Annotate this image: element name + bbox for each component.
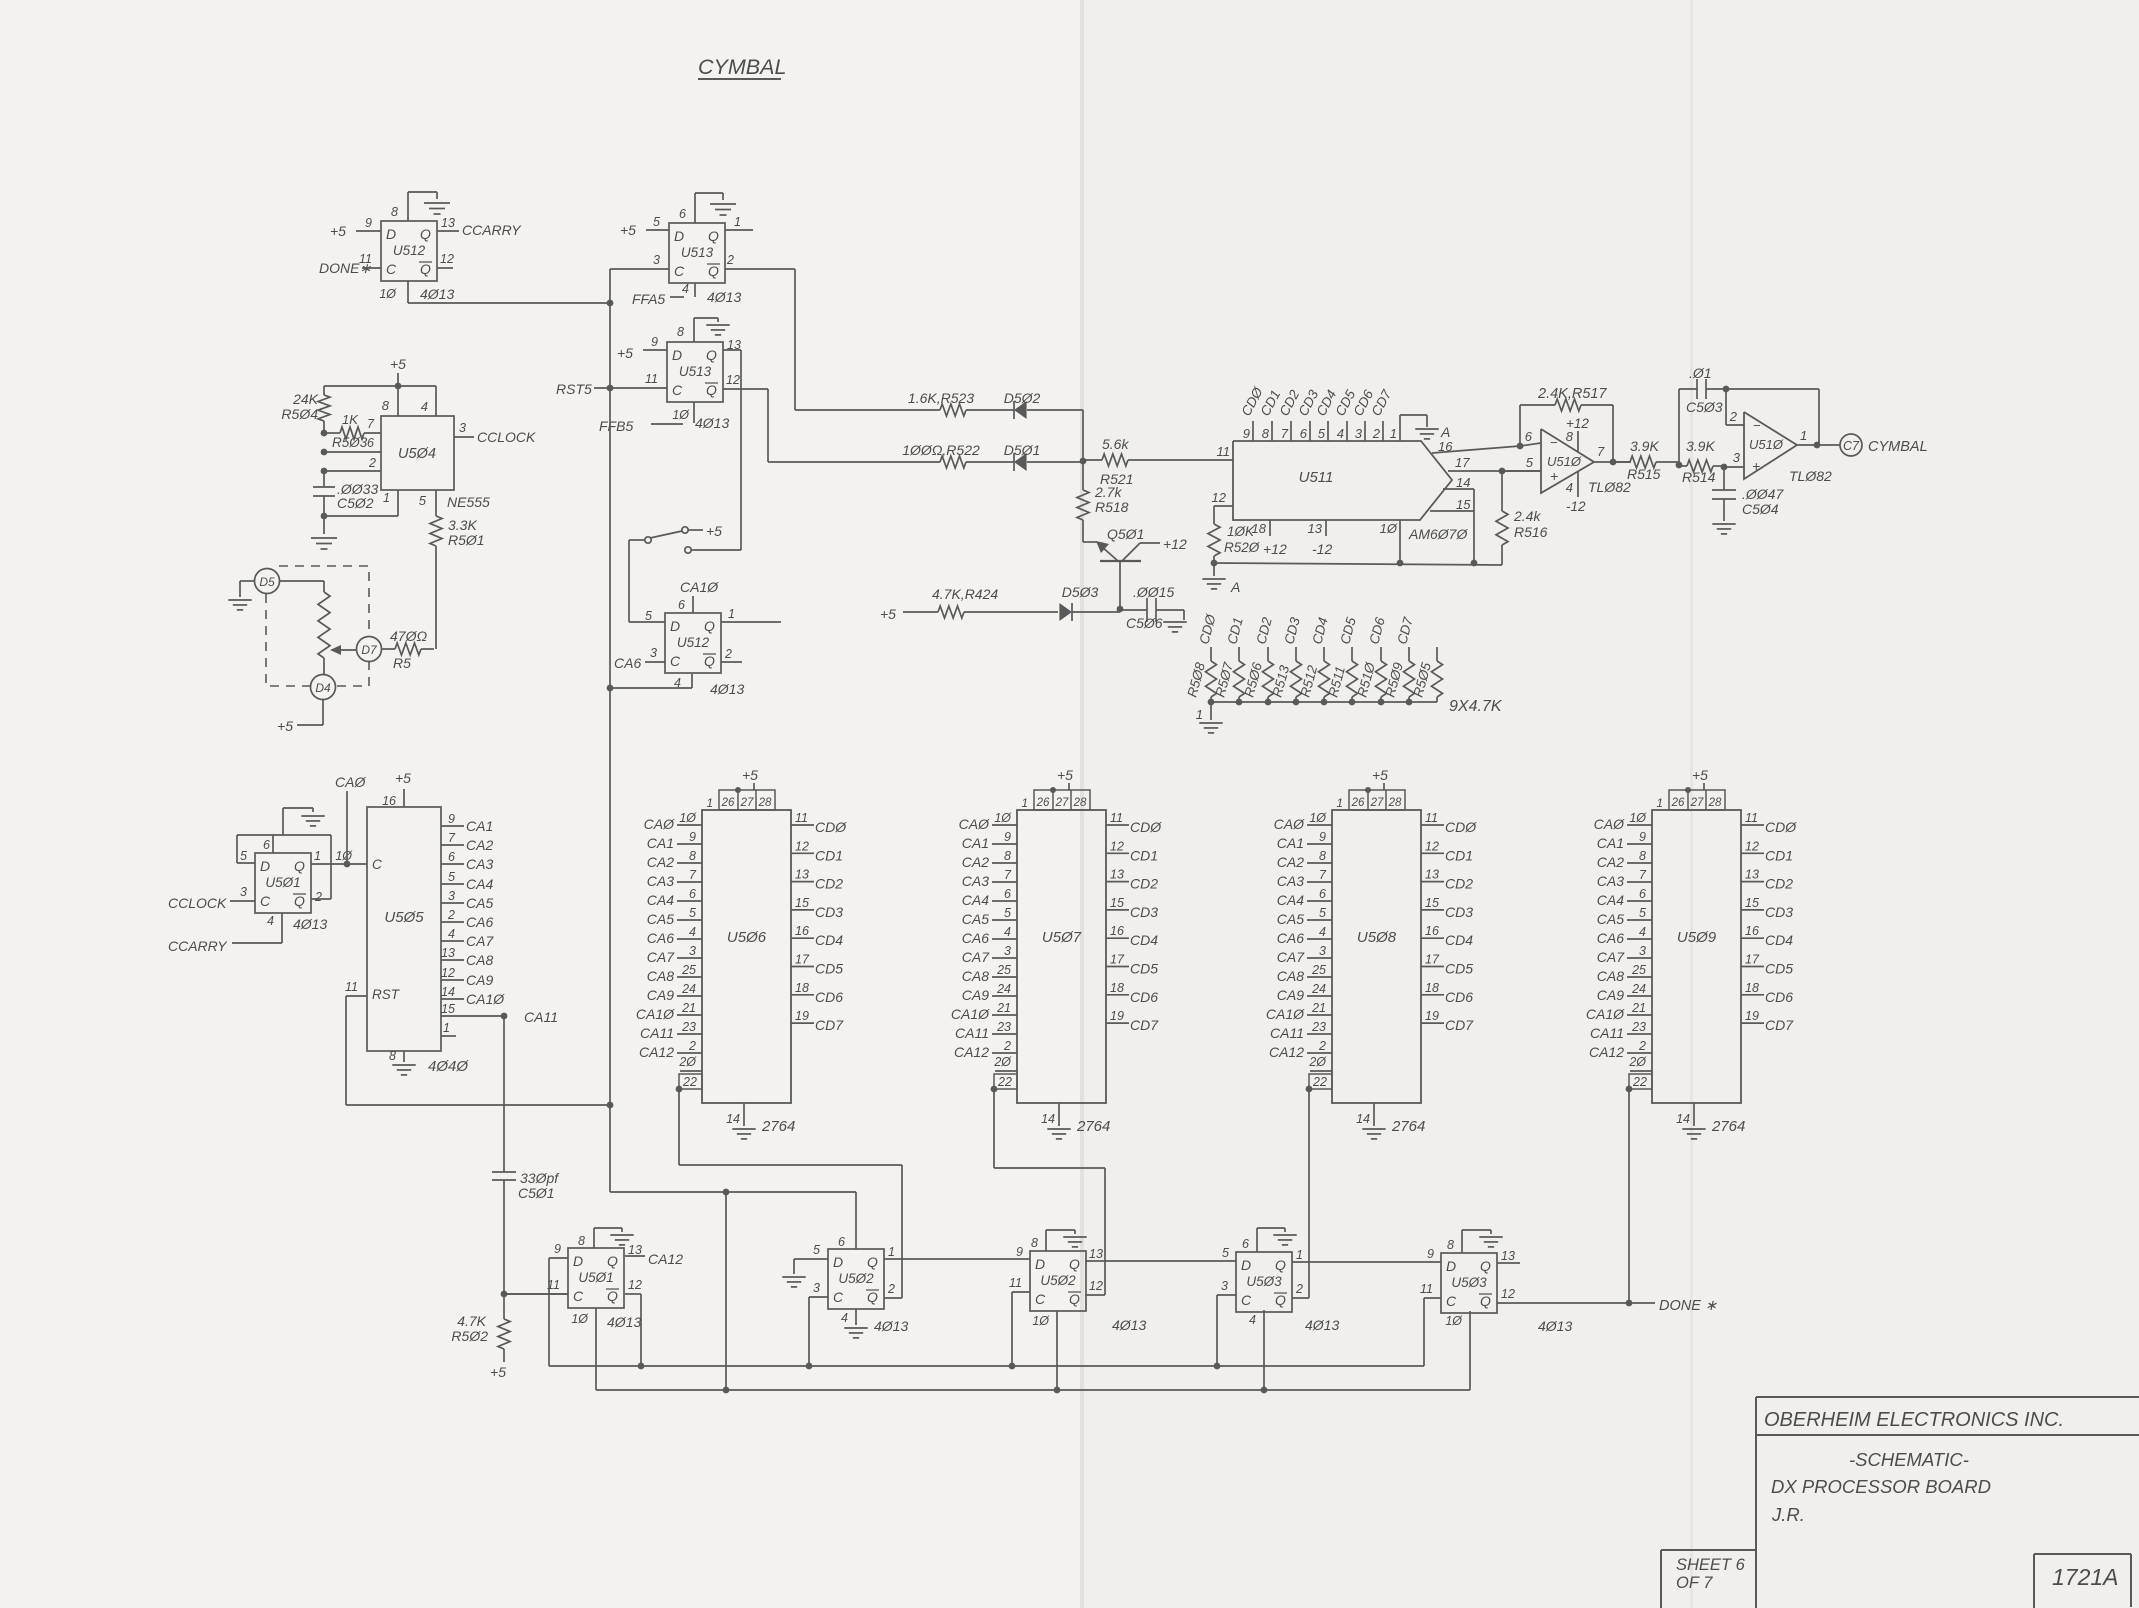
svg-text:5: 5: [240, 849, 247, 863]
wire U503 pin 13 stub: [1497, 1262, 1520, 1264]
svg-text:19: 19: [1425, 1009, 1439, 1023]
U509 pin 14 ground: [1693, 1103, 1695, 1126]
U506 pin 4 CA6: [677, 938, 702, 940]
wire U513 pin 10 FFB5: [693, 402, 695, 423]
U511 pin 13 to -12: [1325, 520, 1327, 536]
number box 1721A: [2034, 1553, 2131, 1555]
resistor R509: [1408, 647, 1410, 661]
svg-text:2: 2: [1318, 1039, 1326, 1053]
U509 pin 2 CA12: [1627, 1052, 1652, 1054]
svg-text:D4: D4: [315, 681, 331, 695]
wire U507 CS to U502 Qbar: [993, 1089, 995, 1168]
svg-text:D5Ø3: D5Ø3: [1062, 584, 1099, 600]
svg-text:CD1: CD1: [1765, 847, 1793, 863]
U507 pin 21 CA10: [992, 1014, 1017, 1016]
svg-text:CA2: CA2: [1277, 854, 1304, 870]
wire U503 pin 2 Qbar from U508: [1292, 1297, 1309, 1299]
svg-text:Q: Q: [420, 226, 431, 242]
wire main bus vertical: [609, 269, 611, 1192]
svg-text:13: 13: [727, 338, 741, 352]
svg-text:Q: Q: [1069, 1256, 1080, 1272]
U506 pin 13 CD2: [791, 881, 814, 883]
svg-text:11: 11: [1425, 811, 1438, 825]
svg-text:2764: 2764: [761, 1118, 795, 1135]
wire U501 pin 1 Q to U505 C: [311, 863, 367, 865]
svg-text:R514: R514: [1682, 469, 1716, 485]
svg-text:2: 2: [1003, 1039, 1011, 1053]
svg-text:13: 13: [441, 946, 455, 960]
svg-text:R52Ø: R52Ø: [1224, 540, 1261, 555]
svg-text:C5Ø4: C5Ø4: [1742, 501, 1779, 517]
svg-text:D: D: [260, 858, 270, 874]
svg-text:16: 16: [1438, 439, 1453, 454]
svg-text:9: 9: [1427, 1247, 1434, 1261]
svg-text:11: 11: [1009, 1276, 1022, 1290]
svg-text:CA8: CA8: [647, 968, 674, 984]
flip-flop U503 (first): [1236, 1252, 1292, 1312]
svg-text:11: 11: [1217, 444, 1231, 459]
svg-text:A: A: [1230, 579, 1240, 595]
U509 pin 12 CD1: [1741, 852, 1764, 854]
svg-text:CA1: CA1: [647, 835, 674, 851]
svg-text:27: 27: [1055, 797, 1069, 809]
svg-text:5: 5: [1526, 455, 1534, 470]
svg-text:12: 12: [441, 966, 455, 980]
feedback loop Qbar to D: [311, 898, 331, 900]
pin 6 CA3: [441, 863, 464, 865]
svg-text:8: 8: [1319, 849, 1326, 863]
svg-text:8: 8: [382, 398, 390, 413]
U506 pin 21 CA10: [677, 1014, 702, 1016]
pin 5 CA4: [441, 883, 464, 885]
svg-text:CA5: CA5: [466, 895, 493, 911]
pin 1 stub: [441, 1035, 456, 1037]
svg-text:12: 12: [628, 1278, 642, 1292]
U508 pin 4 CA6: [1307, 938, 1332, 940]
svg-text:6: 6: [838, 1235, 845, 1249]
wire U512 pin13 CCARRY: [437, 230, 459, 232]
ground above U501: [282, 808, 284, 835]
U508 pin 16 CD4: [1421, 937, 1444, 939]
svg-text:R5Ø2: R5Ø2: [451, 1328, 488, 1344]
U509 pin 5 CA5: [1627, 919, 1652, 921]
svg-text:4: 4: [682, 282, 689, 296]
svg-text:CA3: CA3: [1277, 873, 1304, 889]
svg-text:-SCHEMATIC-: -SCHEMATIC-: [1849, 1449, 1969, 1470]
network common bus: [1211, 701, 1437, 703]
U507 pin 16 CD4: [1106, 937, 1129, 939]
svg-text:+5: +5: [1372, 767, 1388, 783]
svg-text:R515: R515: [1627, 466, 1661, 482]
svg-text:13: 13: [1089, 1247, 1103, 1261]
svg-text:14: 14: [1676, 1112, 1690, 1126]
svg-text:7: 7: [1639, 868, 1647, 882]
svg-text:2: 2: [1295, 1282, 1303, 1296]
svg-text:CA6: CA6: [647, 930, 674, 946]
svg-text:CD1: CD1: [815, 847, 843, 863]
U507 pin 19 CD7: [1106, 1022, 1129, 1024]
svg-text:CD5: CD5: [815, 961, 843, 977]
svg-text:27: 27: [1370, 797, 1384, 809]
svg-text:Q: Q: [420, 261, 431, 277]
svg-text:16: 16: [1745, 924, 1759, 938]
svg-text:17: 17: [1455, 455, 1470, 470]
svg-text:27: 27: [740, 797, 754, 809]
svg-text:D5: D5: [259, 575, 275, 589]
svg-text:CA4: CA4: [1597, 892, 1624, 908]
capacitor C504 .0047: [1723, 467, 1725, 490]
svg-text:2: 2: [447, 908, 455, 922]
svg-text:CA1: CA1: [1277, 835, 1304, 851]
svg-text:CYMBAL: CYMBAL: [1868, 439, 1928, 455]
svg-text:22: 22: [682, 1075, 697, 1089]
svg-text:9: 9: [1004, 830, 1011, 844]
ground below C504: [1712, 523, 1735, 525]
svg-text:CA8: CA8: [1277, 968, 1304, 984]
U507 pin 13 CD2: [1106, 881, 1129, 883]
svg-text:C: C: [372, 857, 382, 872]
svg-text:12: 12: [726, 373, 740, 387]
wire U503 pin 1 Q to next D: [1292, 1261, 1441, 1263]
svg-text:+5: +5: [277, 718, 293, 734]
svg-text:1: 1: [443, 1021, 450, 1035]
svg-text:+: +: [1550, 468, 1558, 484]
svg-text:1: 1: [1656, 796, 1663, 810]
svg-text:J.R.: J.R.: [1771, 1504, 1805, 1525]
svg-text:Q: Q: [1480, 1293, 1491, 1309]
svg-text:25: 25: [1631, 963, 1646, 977]
wire U509 CS down: [1628, 1089, 1630, 1303]
U509 pin 20: [1630, 1070, 1652, 1072]
pin 12 CA9: [441, 979, 464, 981]
U511 pin 10 to analog ground bus: [1399, 520, 1401, 563]
svg-text:28: 28: [1708, 797, 1722, 809]
U508 pin 13 CD2: [1421, 881, 1444, 883]
flip-flop U513 (FFB5): [667, 342, 723, 402]
svg-text:CA5: CA5: [647, 911, 674, 927]
svg-text:4: 4: [267, 914, 274, 928]
svg-text:26: 26: [1671, 797, 1685, 809]
svg-text:RST: RST: [372, 987, 401, 1002]
svg-text:CD7: CD7: [815, 1017, 844, 1033]
pot wiper arrow from D7: [336, 649, 357, 651]
U511 pin 1 to analog ground A: [1399, 415, 1401, 441]
wire D4 to +5: [322, 699, 324, 725]
svg-text:1: 1: [1196, 707, 1203, 722]
U508 pin 7 CA3: [1307, 881, 1332, 883]
svg-text:CA3: CA3: [962, 873, 989, 889]
svg-text:13: 13: [628, 1243, 642, 1257]
svg-text:−: −: [1753, 418, 1761, 433]
svg-text:CDØ: CDØ: [1445, 819, 1477, 835]
svg-text:25: 25: [681, 963, 696, 977]
svg-text:CA1Ø: CA1Ø: [466, 991, 505, 1007]
pin 15 wire to CA11: [441, 1015, 504, 1017]
U508 pin 23 CA11: [1307, 1033, 1332, 1035]
svg-text:C5Ø3: C5Ø3: [1686, 399, 1723, 415]
svg-text:8: 8: [1004, 849, 1011, 863]
svg-text:CA5: CA5: [1277, 911, 1304, 927]
svg-text:+5: +5: [490, 1364, 506, 1380]
svg-text:1Ø: 1Ø: [672, 408, 690, 422]
svg-text:4.7K: 4.7K: [457, 1313, 486, 1329]
svg-text:3: 3: [448, 889, 455, 903]
svg-text:8: 8: [1031, 1236, 1038, 1250]
svg-text:Q: Q: [607, 1288, 618, 1304]
wire U513 pin 2 Qbar to R523: [725, 268, 795, 270]
op-amp pin 8 +12: [1577, 431, 1579, 452]
svg-text:3.9K: 3.9K: [1686, 438, 1715, 454]
wire U513 pin 12 Qbar to R522: [723, 388, 768, 390]
svg-text:4Ø4Ø: 4Ø4Ø: [428, 1058, 469, 1075]
svg-text:CA11: CA11: [955, 1025, 989, 1041]
svg-text:5: 5: [689, 906, 696, 920]
svg-text:U5Ø1: U5Ø1: [578, 1270, 613, 1285]
svg-text:+5: +5: [395, 770, 411, 786]
wire U501 pin 13 Q CA12: [625, 1255, 645, 1257]
wire U512 pin 2 stub: [721, 661, 742, 663]
ground at C506: [1183, 610, 1185, 620]
svg-text:4.7K,R424: 4.7K,R424: [932, 586, 998, 602]
svg-text:CD4: CD4: [815, 932, 843, 948]
wire U502 pin 1 Q to next D: [884, 1258, 1030, 1260]
resistor R505: [1436, 647, 1438, 661]
U507 pin 8 CA2: [992, 862, 1017, 864]
resistor R516 2.4k: [1496, 511, 1508, 545]
svg-text:11: 11: [1110, 811, 1123, 825]
wire bus bottom to U502 pin 6: [610, 1191, 856, 1193]
svg-text:Q: Q: [1275, 1292, 1286, 1308]
svg-text:R5: R5: [393, 655, 411, 671]
svg-text:D: D: [386, 226, 396, 242]
svg-text:1ØØΩ,R522: 1ØØΩ,R522: [902, 442, 980, 458]
U509 pin 13 CD2: [1741, 881, 1764, 883]
svg-text:CA6: CA6: [962, 930, 989, 946]
svg-text:3.3K: 3.3K: [448, 517, 477, 533]
U508 pin 10 CA0: [1307, 824, 1332, 826]
pin 8 ground: [403, 1051, 405, 1062]
U507 pin 23 CA11: [992, 1033, 1017, 1035]
svg-text:13: 13: [1425, 868, 1439, 882]
wire U504 pin 5: [435, 490, 437, 510]
U507 pin 14 ground: [1058, 1103, 1060, 1126]
svg-text:11: 11: [795, 811, 808, 825]
svg-text:C: C: [670, 653, 681, 669]
svg-text:4Ø13: 4Ø13: [1112, 1317, 1146, 1333]
svg-text:14: 14: [441, 985, 455, 999]
svg-text:CD4: CD4: [1765, 932, 1793, 948]
svg-text:7: 7: [1319, 868, 1327, 882]
wire U504 pin 2: [321, 468, 328, 475]
svg-text:2764: 2764: [1391, 1118, 1425, 1135]
svg-text:2764: 2764: [1711, 1118, 1745, 1135]
svg-text:9: 9: [1319, 830, 1326, 844]
U509 pin 24 CA9: [1627, 995, 1652, 997]
svg-text:9: 9: [1639, 830, 1646, 844]
svg-text:CA12: CA12: [954, 1044, 989, 1060]
svg-text:D7: D7: [361, 643, 378, 657]
svg-text:A: A: [1440, 424, 1450, 440]
svg-text:6: 6: [1004, 887, 1011, 901]
U506 pin 20: [680, 1070, 702, 1072]
svg-text:C: C: [1241, 1292, 1252, 1308]
U509 pin 6 CA4: [1627, 900, 1652, 902]
pin 9 CD0: [1252, 421, 1254, 441]
pin 13 CA8: [441, 959, 464, 961]
svg-text:Q5Ø1: Q5Ø1: [1107, 526, 1144, 542]
svg-text:Q: Q: [607, 1253, 618, 1269]
svg-text:Q: Q: [1480, 1258, 1491, 1274]
svg-text:12: 12: [1110, 839, 1124, 853]
svg-text:U513: U513: [679, 364, 712, 379]
svg-text:4: 4: [1337, 426, 1344, 441]
svg-text:7: 7: [367, 417, 375, 431]
svg-text:23: 23: [1631, 1020, 1646, 1034]
U507 pin 17 CD5: [1106, 966, 1129, 968]
svg-text:CA1Ø: CA1Ø: [1586, 1006, 1625, 1022]
U509 pin 22 boxed: [1629, 1074, 1652, 1089]
svg-text:CA6: CA6: [1277, 930, 1304, 946]
U506 pin 11 CD0: [791, 824, 814, 826]
svg-text:6: 6: [263, 838, 270, 852]
svg-text:Q: Q: [1275, 1257, 1286, 1273]
svg-text:Q: Q: [708, 228, 719, 244]
svg-text:2.4K,R517: 2.4K,R517: [1537, 386, 1607, 402]
svg-text:1Ø: 1Ø: [379, 287, 397, 301]
svg-text:21: 21: [681, 1001, 696, 1015]
U506 pin 15 CD3: [791, 909, 814, 911]
svg-text:CA7: CA7: [647, 949, 675, 965]
svg-text:4Ø13: 4Ø13: [874, 1318, 908, 1334]
U506 pin 12 CD1: [791, 852, 814, 854]
svg-text:12: 12: [440, 252, 454, 266]
resistor R5 470ohm: [381, 648, 395, 650]
svg-text:13: 13: [441, 216, 455, 230]
svg-text:CA1: CA1: [1597, 835, 1624, 851]
svg-text:CD7: CD7: [1445, 1017, 1474, 1033]
svg-text:CA12: CA12: [1269, 1044, 1304, 1060]
wire C503 to feedback node: [1723, 386, 1730, 393]
svg-text:3: 3: [653, 253, 660, 267]
resistor R513: [1295, 647, 1297, 661]
U506 pin 9 CA1: [677, 843, 702, 845]
svg-text:25: 25: [996, 963, 1011, 977]
svg-text:CA9: CA9: [1597, 987, 1624, 1003]
svg-text:15: 15: [1425, 896, 1439, 910]
svg-text:11: 11: [359, 252, 372, 266]
wire U502 pin 10 to bus2: [1056, 1311, 1058, 1390]
svg-text:3: 3: [1733, 450, 1741, 465]
svg-text:33Øpf: 33Øpf: [520, 1170, 560, 1186]
U507 pin 11 CD0: [1106, 824, 1129, 826]
wire bus feed down: [725, 1192, 727, 1390]
svg-text:15: 15: [1456, 497, 1471, 512]
svg-text:CA4: CA4: [466, 876, 493, 892]
output pad C7 CYMBAL: [1840, 434, 1862, 456]
svg-text:12: 12: [1212, 490, 1227, 505]
ground above U513 FFB5: [693, 318, 695, 342]
U506 pin 5 CA5: [677, 919, 702, 921]
svg-text:CA3: CA3: [466, 856, 493, 872]
svg-text:CD2: CD2: [1130, 876, 1158, 892]
capacitor C502 .0033: [323, 471, 325, 487]
svg-text:1: 1: [888, 1245, 895, 1259]
svg-text:2: 2: [1729, 409, 1738, 424]
capacitor C501 330pf: [503, 1170, 505, 1172]
svg-text:9: 9: [448, 812, 455, 826]
svg-text:6: 6: [1319, 887, 1326, 901]
svg-text:U5Ø7: U5Ø7: [1042, 929, 1082, 946]
flip-flop U513 (FFA5): [669, 223, 725, 283]
svg-text:Q: Q: [867, 1289, 878, 1305]
ground above U503 first: [1256, 1228, 1258, 1252]
svg-text:1Ø: 1Ø: [1309, 811, 1327, 825]
svg-text:7: 7: [689, 868, 697, 882]
svg-text:5: 5: [1319, 906, 1326, 920]
svg-text:19: 19: [795, 1009, 809, 1023]
svg-text:9: 9: [554, 1242, 561, 1256]
U507 pin 3 CA7: [992, 957, 1017, 959]
U507 pin 9 CA1: [992, 843, 1017, 845]
svg-text:C: C: [674, 263, 685, 279]
svg-text:+5: +5: [330, 223, 346, 239]
svg-text:2Ø: 2Ø: [1308, 1055, 1327, 1069]
svg-text:8: 8: [391, 205, 398, 219]
U506 pin 16 CD4: [791, 937, 814, 939]
pin 2 CA6: [441, 921, 464, 923]
svg-text:C5Ø1: C5Ø1: [518, 1185, 555, 1201]
svg-text:2: 2: [726, 253, 734, 267]
svg-text:Q: Q: [706, 382, 717, 398]
svg-text:23: 23: [1311, 1020, 1326, 1034]
svg-text:U5Ø4: U5Ø4: [398, 446, 436, 462]
svg-text:CA8: CA8: [962, 968, 989, 984]
resistor R522 100ohm and diode D501: [768, 461, 940, 463]
svg-text:1Ø: 1Ø: [1032, 1314, 1050, 1328]
svg-text:11: 11: [1745, 811, 1758, 825]
svg-text:CA2: CA2: [466, 837, 493, 853]
flip-flop U503 (second): [1441, 1253, 1497, 1313]
flip-flop U502 (second): [1030, 1251, 1086, 1311]
svg-text:NE555: NE555: [447, 494, 490, 510]
resistor R502 4.7K: [503, 1294, 505, 1319]
svg-text:CAØ: CAØ: [1594, 816, 1625, 832]
svg-text:4: 4: [689, 925, 696, 939]
wire pin 6 junction: [1517, 443, 1524, 450]
svg-text:CD4: CD4: [1445, 932, 1473, 948]
svg-text:21: 21: [1631, 1001, 1646, 1015]
svg-text:8: 8: [578, 1234, 585, 1248]
svg-text:9: 9: [365, 216, 372, 230]
U511 pin 14 wire: [1443, 488, 1474, 490]
IC U504 NE555: [381, 416, 454, 490]
svg-text:CD2: CD2: [1445, 876, 1473, 892]
svg-text:18: 18: [795, 981, 809, 995]
svg-text:14: 14: [726, 1112, 740, 1126]
wire U503 pin 3 C to bus1: [1217, 1294, 1236, 1296]
U508 pin 5 CA5: [1307, 919, 1332, 921]
svg-text:CD6: CD6: [1765, 989, 1793, 1005]
wire U502 pin 11 C to bus1: [1012, 1291, 1030, 1293]
svg-text:CA7: CA7: [466, 933, 494, 949]
U506 pin 7 CA3: [677, 881, 702, 883]
op-amp pin 4 -12: [1577, 471, 1579, 497]
svg-text:25: 25: [1311, 963, 1326, 977]
resistor R523 1.6K and diode D502: [795, 409, 940, 411]
svg-text:15: 15: [795, 896, 809, 910]
svg-text:18: 18: [1425, 981, 1439, 995]
diode D503: [1059, 603, 1072, 621]
